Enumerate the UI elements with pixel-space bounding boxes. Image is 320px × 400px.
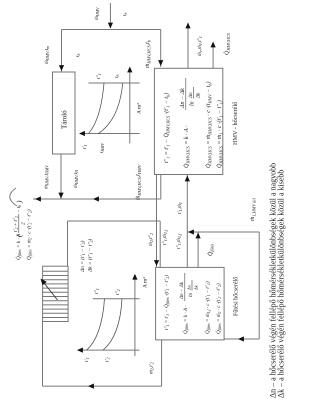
- svg-text:Q̇fűtés = ṁ2 · c ·(t′2 − t″2): Q̇fűtés = ṁ2 · c ·(t′2 − t″2): [26, 209, 33, 260]
- svg-text:ṁv,ṁ1,t″1: ṁv,ṁ1,t″1: [197, 36, 203, 56]
- svg-text:Q̇HMV,HCS: Q̇HMV,HCS: [224, 32, 232, 55]
- svg-text:ṁHMV: ṁHMV: [94, 7, 100, 20]
- wire L1 futesi box to HMV box: [186, 175, 188, 267]
- wire primary bottom run: [258, 232, 260, 339]
- svg-text:Δk = (t″1 − t″2): Δk = (t″1 − t″2): [87, 239, 94, 273]
- tap arc at riser top: [10, 188, 17, 206]
- svg-text:Δk – a hőcserélő végén fellépő: Δk – a hőcserélő végén fellépő hőmérsékl…: [277, 170, 286, 398]
- svg-text:Δn − Δk: Δn − Δk: [180, 88, 186, 109]
- svg-text:t″1,ṁ1,f: t″1,ṁ1,f: [176, 233, 183, 249]
- svg-text:Δn: Δn: [187, 284, 192, 291]
- futesi box equation row2: [179, 273, 199, 334]
- wire primary drop: [187, 231, 259, 233]
- wire heating supply out of box: [161, 340, 163, 386]
- wire tank feed: [61, 30, 63, 72]
- svg-text:t′1,ṁ1: t′1,ṁ1: [177, 202, 183, 214]
- wire into futesi box bottom: [225, 338, 260, 340]
- radiator equation 1: [13, 200, 27, 260]
- wire return drop: [68, 220, 161, 222]
- svg-text:t′2: t′2: [105, 357, 111, 362]
- svg-text:t″1: t″1: [96, 73, 102, 79]
- futesi chart: [77, 274, 149, 362]
- svg-text:ṁ2,t″2: ṁ2,t″2: [148, 233, 154, 246]
- svg-text:th: th: [122, 13, 128, 17]
- HMV heat exchanger box: [154, 68, 222, 174]
- HMV chart: [79, 67, 143, 154]
- futesi chart x axis: [134, 276, 136, 356]
- svg-text:Tároló: Tároló: [61, 110, 69, 129]
- HMV chart primary curve: [89, 83, 105, 134]
- svg-text:tHMV: tHMV: [99, 142, 105, 153]
- svg-text:Δn: Δn: [188, 92, 194, 99]
- futesi chart ordinate axis: [78, 349, 140, 351]
- wire riser to HMV box: [160, 175, 162, 200]
- svg-text:Δn − Δk: Δn − Δk: [179, 281, 185, 300]
- svg-text:ln: ln: [190, 101, 196, 106]
- wire tank discharge: [60, 154, 62, 199]
- svg-text:t″2: t″2: [115, 289, 121, 295]
- svg-text:t′1: t′1: [82, 144, 88, 149]
- wire radiator return: [67, 221, 69, 266]
- wire futesi outlet stub: [197, 232, 199, 267]
- wire return into futesi box: [159, 221, 161, 267]
- wire DHW riser: [33, 198, 161, 200]
- svg-text:Δk: Δk: [196, 92, 202, 99]
- wire cold water entry: [109, 3, 111, 28]
- radiator: [43, 266, 69, 321]
- wire L2 HMV box to futesi box: [156, 175, 158, 268]
- svg-text:ṁHMV,tm: ṁHMV,tm: [44, 46, 50, 64]
- svg-text:t′2 + t″2: t′2 + t″2: [13, 216, 19, 232]
- svg-text:t″1: t″1: [94, 288, 100, 294]
- svg-text:ṁ1,HMV átl: ṁ1,HMV átl: [250, 197, 257, 221]
- futesi heat exchanger box: [156, 267, 225, 340]
- svg-text:): ): [15, 200, 24, 204]
- HMV chart ordinate axis: [80, 133, 140, 135]
- wire HMV cold branch: [160, 30, 162, 68]
- wire cold manifold: [62, 29, 161, 31]
- svg-text:A m²: A m²: [137, 103, 143, 114]
- svg-text:t″1,ṁ1,f: t″1,ṁ1,f: [162, 229, 169, 245]
- futesi chart right boundary: [93, 298, 140, 300]
- futesi chart secondary curve: [103, 299, 122, 350]
- svg-text:t′1: t′1: [84, 357, 90, 362]
- svg-text:ṁHMV,tH: ṁHMV,tH: [73, 170, 79, 188]
- svg-text:ln: ln: [188, 293, 194, 297]
- svg-text:Fűtési hőcserélő: Fűtési hőcserélő: [234, 277, 240, 316]
- HMV chart right boundary: [89, 82, 140, 84]
- tank Tarolo box: [53, 72, 76, 154]
- svg-text:ṁHMV,HCS,th: ṁHMV,HCS,th: [145, 39, 152, 68]
- svg-text:ṁ2,t′2: ṁ2,t′2: [149, 362, 155, 374]
- radiator heat arrow: [43, 281, 58, 300]
- wire HMV primary return out: [187, 23, 189, 68]
- svg-text:th: th: [114, 75, 120, 79]
- svg-text:th: th: [75, 54, 81, 58]
- HMV box equation row2: [180, 78, 202, 168]
- wire heating left riser: [43, 385, 162, 387]
- svg-text:ṁHMV,tHMV: ṁHMV,tHMV: [44, 165, 50, 189]
- wire radiator supply top: [42, 321, 44, 386]
- svg-text:Δn = (t′1 − t′2): Δn = (t′1 − t′2): [79, 240, 86, 273]
- wire HMV heat out arrow: [212, 44, 214, 68]
- HMV chart x axis: [129, 69, 131, 143]
- futesi chart primary curve: [87, 299, 105, 350]
- svg-text:ṁHMV,HCS,tHMV: ṁHMV,HCS,tHMV: [136, 163, 143, 200]
- HMV chart secondary curve: [99, 83, 123, 134]
- svg-text:HMV - hőcserélő: HMV - hőcserélő: [232, 102, 239, 145]
- svg-text:Q̇fűtés: Q̇fűtés: [207, 243, 214, 256]
- svg-text:A m²: A m²: [143, 277, 149, 288]
